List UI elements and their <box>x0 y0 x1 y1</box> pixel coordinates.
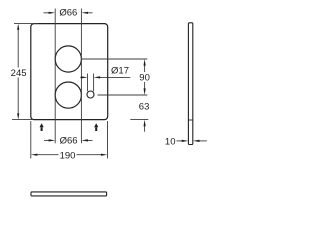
side view strip <box>188 23 192 145</box>
190 right extension line <box>107 121 109 159</box>
svg-text:63: 63 <box>139 102 150 113</box>
svg-text:90: 90 <box>139 73 150 84</box>
top dim arrows <box>44 12 93 14</box>
190 left extension line <box>30 121 32 159</box>
tangent extension line right <box>80 9 82 144</box>
side view tick <box>188 119 192 121</box>
svg-text:10: 10 <box>165 136 176 147</box>
hole circle bottom Ø66 <box>55 82 81 108</box>
tangent extension line left <box>54 9 56 144</box>
245 dimension line <box>17 24 19 120</box>
ref line from small circle center <box>98 94 148 96</box>
plate front view outline <box>31 24 108 120</box>
bottom right ref line <box>130 119 148 121</box>
small hole Ø17 <box>87 91 94 98</box>
svg-text:Ø17: Ø17 <box>111 66 129 77</box>
Ø17 dimension arrows and leader <box>80 76 130 78</box>
Ø17 extension lines <box>87 74 89 92</box>
ref line from top circle center <box>82 58 147 60</box>
svg-text:190: 190 <box>60 150 76 161</box>
245 bottom extension line <box>12 119 32 121</box>
svg-text:Ø66: Ø66 <box>59 8 77 19</box>
190 dimension line <box>31 154 108 156</box>
section arrow left <box>40 123 44 131</box>
63 dimension line <box>144 120 146 132</box>
svg-text:Ø66: Ø66 <box>60 135 78 146</box>
bottom dim arrows Ø66 <box>44 139 93 141</box>
bottom view strip <box>31 192 107 196</box>
hole circle top Ø66 <box>55 46 81 72</box>
10 dim left arrow <box>177 140 207 142</box>
245 top extension line <box>14 23 38 25</box>
90 dimension line <box>144 59 146 95</box>
svg-text:245: 245 <box>11 68 27 79</box>
section arrow right <box>94 123 98 131</box>
